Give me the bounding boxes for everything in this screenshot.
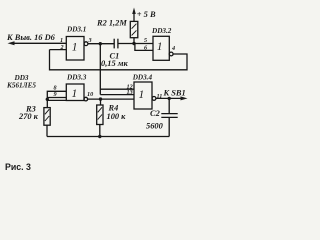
svg-text:DD3.1: DD3.1	[66, 26, 86, 34]
svg-text:5600: 5600	[146, 122, 164, 131]
wire lower stub to DD3.3	[47, 99, 66, 101]
svg-text:1: 1	[139, 89, 145, 101]
svg-text:13: 13	[127, 89, 133, 96]
svg-text:100 к: 100 к	[107, 112, 127, 121]
node junction R4 top	[99, 97, 102, 100]
node junction on DD3.1 output	[99, 42, 102, 45]
svg-text:1: 1	[72, 88, 78, 100]
wire DD3.3 output	[88, 98, 134, 100]
wire feedback from DD3.2 output to DD3.1 pin2	[50, 50, 188, 70]
wire to pin 12	[100, 88, 134, 90]
svg-text:270 к: 270 к	[18, 112, 39, 121]
svg-text:1: 1	[157, 41, 163, 53]
resistor R3	[44, 99, 50, 136]
svg-text:+ 5 В: + 5 В	[137, 10, 156, 19]
wire C1 to DD3.2 pin5	[118, 43, 153, 45]
capacitor C2	[161, 98, 177, 136]
wire DD3.4 output to SB1 with arrow	[156, 96, 188, 100]
wire stub to pin 6	[135, 44, 153, 51]
node junction C2 top	[168, 97, 171, 100]
wire DD3.1 output to C1	[88, 43, 114, 45]
wire pin2 of DD3.1	[50, 49, 67, 51]
resistor R2	[130, 13, 138, 44]
wire bottom rail	[47, 136, 169, 138]
svg-text:DD3.2: DD3.2	[151, 27, 172, 35]
wire output to D6 with arrow	[8, 41, 67, 45]
wire pin 8	[47, 91, 66, 99]
svg-text:К SB1: К SB1	[163, 89, 186, 98]
gate DD3.3	[66, 84, 87, 101]
gate DD3.4	[134, 82, 156, 109]
gate DD3.2	[153, 36, 173, 60]
node junction R3 top	[46, 98, 49, 101]
wire to pin 13	[100, 94, 134, 96]
svg-text:К Выв. 16 D6: К Выв. 16 D6	[6, 33, 56, 42]
svg-text:3: 3	[88, 37, 92, 44]
svg-text:10: 10	[87, 91, 93, 98]
svg-text:R2 1,2М: R2 1,2М	[96, 18, 127, 27]
node junction R4 bottom	[98, 135, 101, 138]
capacitor C1	[114, 39, 118, 49]
gate DD3.1	[66, 37, 88, 61]
resistor R4	[97, 99, 103, 136]
node junction R2 bottom	[132, 42, 135, 45]
svg-text:0,15 мк: 0,15 мк	[101, 59, 128, 68]
svg-text:К561ЛЕ5: К561ЛЕ5	[6, 82, 36, 90]
svg-text:DD3.3: DD3.3	[66, 74, 87, 82]
svg-text:C2: C2	[150, 109, 160, 118]
svg-text:1: 1	[72, 42, 78, 54]
wire pin 9	[47, 97, 66, 99]
wire DD3.1 output down to DD3.4 inputs	[99, 44, 101, 95]
svg-text:4: 4	[171, 45, 175, 52]
svg-text:DD3.4: DD3.4	[132, 74, 153, 82]
svg-text:Рис. 3: Рис. 3	[5, 162, 31, 172]
svg-text:1: 1	[60, 37, 63, 44]
power +5 В arrow	[132, 8, 136, 15]
